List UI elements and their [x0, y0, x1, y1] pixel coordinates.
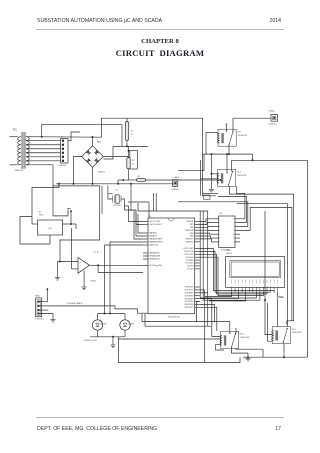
svg-text:LD-A: LD-A [94, 251, 99, 254]
svg-text:3: 3 [220, 226, 221, 228]
svg-text:7: 7 [220, 242, 221, 244]
svg-text:STREET LIGHT: STREET LIGHT [84, 340, 98, 342]
svg-text:RB3/PGM: RB3/PGM [185, 230, 194, 232]
svg-text:OMI-SH-105D: OMI-SH-105D [238, 135, 248, 137]
svg-text:14: 14 [233, 226, 235, 228]
svg-text:11: 11 [233, 238, 235, 240]
svg-text:RD4/PSP4: RD4/PSP4 [185, 298, 194, 300]
svg-text:OMI-SH-105D: OMI-SH-105D [292, 332, 302, 334]
svg-text:RA0/AN0: RA0/AN0 [149, 232, 157, 235]
svg-text:RB6/PGC: RB6/PGC [186, 239, 195, 241]
svg-text:RB4: RB4 [190, 233, 194, 235]
svg-text:1: 1 [220, 218, 221, 220]
svg-text:11: 11 [266, 285, 268, 287]
svg-text:RL3: RL3 [240, 334, 245, 336]
svg-text:RC6/TX: RC6/TX [187, 266, 194, 268]
svg-text:RA3/AN3/VREF+: RA3/AN3/VREF+ [149, 241, 163, 244]
svg-text:7: 7 [252, 285, 253, 287]
svg-text:LCD1: LCD1 [226, 250, 232, 252]
svg-text:RC5/SDO: RC5/SDO [186, 263, 195, 265]
svg-text:LM358: LM358 [91, 281, 96, 283]
svg-text:RC1/T1OSI: RC1/T1OSI [184, 251, 194, 253]
svg-text:OSC2/CLKOUT: OSC2/CLKOUT [149, 224, 163, 226]
svg-text:RC0/T1OSO: RC0/T1OSO [183, 248, 194, 250]
svg-text:3: 3 [238, 285, 239, 287]
svg-text:RA1/AN1: RA1/AN1 [149, 235, 157, 238]
svg-text:OSC1/CLKIN: OSC1/CLKIN [149, 221, 160, 223]
svg-text:6: 6 [220, 238, 221, 240]
svg-text:OMI-SH-105D: OMI-SH-105D [237, 175, 247, 177]
svg-text:10: 10 [233, 242, 235, 244]
svg-text:KBD1: KBD1 [35, 295, 41, 297]
svg-text:RB5: RB5 [190, 236, 194, 238]
svg-text:CONN-SIL4: CONN-SIL4 [35, 318, 44, 320]
svg-text:R1: R1 [131, 131, 134, 133]
svg-text:14: 14 [277, 285, 279, 287]
svg-text:RE0/AN5/RD: RE0/AN5/RD [149, 252, 160, 255]
svg-text:1: 1 [231, 285, 232, 287]
svg-text:D2: D2 [128, 321, 130, 323]
svg-text:U1: U1 [149, 216, 153, 218]
svg-text:RE1/AN6/WR: RE1/AN6/WR [149, 255, 161, 258]
svg-text:+: + [79, 260, 81, 264]
svg-text:12: 12 [233, 234, 235, 236]
svg-text:OMI-SH-105D: OMI-SH-105D [240, 337, 250, 339]
svg-text:RC7/RX: RC7/RX [187, 269, 194, 271]
svg-text:CRYSTAL: CRYSTAL [114, 204, 121, 207]
svg-text:CONN-SIL6: CONN-SIL6 [58, 165, 67, 167]
svg-text:4: 4 [220, 230, 221, 232]
svg-text:13: 13 [233, 230, 235, 232]
svg-text:LM016L: LM016L [226, 253, 232, 255]
svg-text:RB1: RB1 [190, 224, 194, 226]
svg-text:10: 10 [263, 285, 265, 287]
svg-text:CONN-SIL2: CONN-SIL2 [269, 124, 277, 126]
svg-text:CONN-SIL2: CONN-SIL2 [171, 189, 179, 191]
svg-text:7805: 7805 [48, 228, 52, 230]
svg-text:R2: R2 [132, 160, 135, 162]
svg-text:RD1/PSP1: RD1/PSP1 [185, 290, 194, 292]
svg-text:RB2: RB2 [190, 227, 194, 229]
svg-text:RL4: RL4 [292, 329, 297, 331]
svg-text:BR1: BR1 [97, 142, 102, 144]
svg-text:2: 2 [235, 285, 236, 287]
svg-text:PIC16F877A: PIC16F877A [168, 315, 180, 318]
svg-text:LED-RED: LED-RED [100, 323, 108, 325]
svg-text:LOAD1: LOAD1 [269, 110, 276, 113]
svg-text:RB0/INT: RB0/INT [187, 221, 195, 223]
svg-text:LED-RED: LED-RED [128, 323, 136, 325]
svg-text:78L05: 78L05 [39, 215, 44, 217]
svg-text:RA4/T0CKI: RA4/T0CKI [149, 244, 159, 247]
svg-text:J1: J1 [61, 136, 64, 138]
svg-text:D1: D1 [100, 321, 102, 323]
svg-text:RL2: RL2 [237, 172, 242, 174]
svg-text:TR1: TR1 [13, 129, 18, 132]
svg-text:RD0/PSP0: RD0/PSP0 [185, 287, 194, 289]
svg-text:1k: 1k [131, 134, 133, 136]
svg-text:X1: X1 [116, 190, 119, 192]
svg-text:RD7/PSP7: RD7/PSP7 [185, 307, 194, 309]
svg-text:RC2/CCP1: RC2/CCP1 [185, 254, 194, 256]
svg-text:RD5/PSP5: RD5/PSP5 [185, 301, 194, 303]
svg-text:2W005G: 2W005G [98, 172, 105, 174]
svg-text:RE2/AN7/CS: RE2/AN7/CS [149, 258, 160, 261]
svg-text:5: 5 [220, 234, 221, 236]
svg-text:2: 2 [220, 222, 221, 224]
svg-text:RD2/PSP2: RD2/PSP2 [185, 293, 194, 295]
svg-text:-: - [80, 269, 81, 273]
svg-text:9: 9 [260, 285, 261, 287]
svg-text:RL1: RL1 [238, 132, 243, 134]
svg-text:RD3/PSP3: RD3/PSP3 [185, 295, 194, 297]
svg-text:8: 8 [256, 285, 257, 287]
svg-text:4: 4 [242, 285, 243, 287]
svg-text:MCLR/Vpp/THV: MCLR/Vpp/THV [149, 265, 163, 267]
svg-text:RC4/SDI: RC4/SDI [186, 260, 194, 262]
svg-text:RC3/SCK: RC3/SCK [186, 257, 195, 259]
svg-text:LOAD2: LOAD2 [173, 176, 180, 179]
svg-text:TC-35GSM DATA IN: TC-35GSM DATA IN [66, 302, 83, 305]
svg-text:RB7/PGD: RB7/PGD [186, 242, 195, 244]
svg-text:U4: U4 [219, 213, 223, 215]
svg-text:U2: U2 [39, 212, 43, 214]
svg-text:16: 16 [233, 218, 235, 220]
svg-text:TRAN-2P5S: TRAN-2P5S [15, 169, 24, 172]
svg-text:R3: R3 [137, 176, 140, 178]
svg-text:6: 6 [249, 285, 250, 287]
svg-text:1k: 1k [132, 164, 134, 166]
svg-text:13: 13 [273, 285, 275, 287]
svg-text:15: 15 [233, 222, 235, 224]
svg-text:RD6/PSP6: RD6/PSP6 [185, 304, 194, 306]
svg-text:5: 5 [245, 285, 246, 287]
svg-text:RA2/AN2/VREF-: RA2/AN2/VREF- [149, 238, 163, 241]
svg-text:12: 12 [270, 285, 272, 287]
